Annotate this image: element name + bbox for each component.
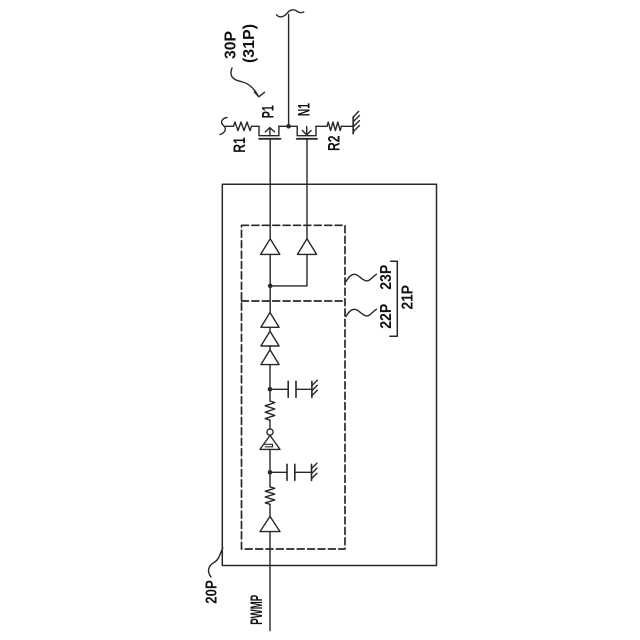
wire N1 to R2 <box>316 125 327 127</box>
leader squiggle 23P <box>346 274 377 281</box>
svg-text:20P: 20P <box>204 580 221 604</box>
wire schmitt to node 2 <box>269 449 271 472</box>
node output junction <box>286 124 291 129</box>
buffer U7 input stage <box>260 516 280 531</box>
ground right of R2 <box>353 111 359 133</box>
resistor R1 <box>234 122 252 131</box>
wire resistor 2 to buffer U7 <box>269 504 271 516</box>
svg-text:R2: R2 <box>325 136 344 152</box>
wire U5 to node <box>269 365 271 390</box>
box 20P outer block <box>222 184 436 565</box>
break symbol top of output wire <box>277 10 304 17</box>
wire resistor to schmitt bubble <box>269 420 271 429</box>
wire U2 output down and left <box>270 254 307 286</box>
node filter 2 <box>268 470 273 475</box>
transistor N1 <box>297 126 317 139</box>
svg-text:PWMP: PWMP <box>247 595 266 625</box>
leader squiggle 20P to box <box>209 548 223 577</box>
wire break to R1 <box>226 125 234 127</box>
wire node to resistor <box>269 389 271 401</box>
wire capacitor 1 to ground <box>296 388 312 390</box>
ground capacitor 2 <box>312 463 317 480</box>
resistor RC2 <box>265 487 275 504</box>
svg-text:(31P): (31P) <box>241 24 258 63</box>
svg-text:23P: 23P <box>378 265 395 290</box>
buffer U4 <box>261 331 279 346</box>
wire N1 gate into block <box>306 139 308 239</box>
bracket grouping 23P and 22P <box>390 261 397 336</box>
wire R2 to ground <box>341 125 353 127</box>
wire output top vertical <box>288 15 290 127</box>
leader arrow from 30P to P1 <box>231 68 265 97</box>
wire node 2 to capacitor 2 <box>270 471 287 473</box>
schmitt inverter U6 <box>260 429 280 449</box>
wire U1 output down <box>269 254 271 312</box>
svg-text:21P: 21P <box>399 285 416 310</box>
svg-text:N1: N1 <box>295 103 314 116</box>
dashed divider between 23P and 22P <box>242 300 346 302</box>
ground capacitor 1 <box>312 380 317 397</box>
buffer U5 <box>261 350 279 365</box>
leader squiggle 22P <box>346 309 377 316</box>
wire capacitor 2 to ground <box>295 471 312 473</box>
break symbol left of R1 <box>220 118 227 135</box>
transistor P1 <box>259 126 281 139</box>
wire R1 to P1 <box>252 125 260 127</box>
resistor RC1 <box>265 401 275 420</box>
wire P1 gate into block <box>269 139 271 239</box>
wire P1 drain to N1 drain <box>279 125 297 127</box>
svg-text:R1: R1 <box>230 137 249 153</box>
buffer U1 left output driver <box>261 239 280 255</box>
node junction below U1 <box>268 284 273 289</box>
wire PWMP input <box>269 532 271 631</box>
wire U4 to U5 <box>269 346 271 350</box>
wire U3 to U4 <box>269 327 271 331</box>
svg-text:30P: 30P <box>222 31 239 59</box>
node filter 1 <box>268 387 273 392</box>
capacitor C1 <box>288 381 296 397</box>
svg-text:22P: 22P <box>378 304 395 329</box>
dashed block 21P outline <box>242 225 346 549</box>
wire node to capacitor 1 <box>270 388 288 390</box>
buffer U2 right output driver <box>297 239 316 255</box>
capacitor C2 <box>287 464 295 480</box>
buffer U3 <box>261 313 279 328</box>
svg-text:P1: P1 <box>258 105 277 118</box>
resistor R2 <box>327 122 341 130</box>
wire node 2 to resistor 2 <box>269 472 271 487</box>
